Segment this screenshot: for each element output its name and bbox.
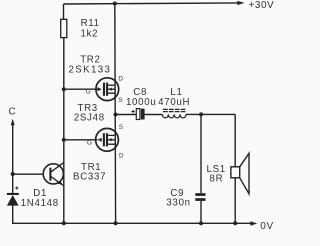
svg-text:C: C — [9, 107, 17, 118]
svg-text:8R: 8R — [210, 174, 224, 185]
svg-text:S: S — [118, 97, 122, 104]
svg-text:G: G — [87, 140, 92, 147]
svg-text:D: D — [118, 75, 123, 82]
svg-text:1N4148: 1N4148 — [21, 198, 59, 209]
svg-text:470uH: 470uH — [158, 97, 190, 108]
svg-text:0V: 0V — [260, 221, 274, 232]
svg-text:1000u: 1000u — [126, 97, 156, 108]
svg-text:1k2: 1k2 — [81, 29, 99, 40]
svg-text:R11: R11 — [81, 18, 100, 29]
svg-text:330n: 330n — [166, 197, 190, 208]
svg-text:+30V: +30V — [249, 0, 275, 11]
svg-text:D: D — [119, 153, 124, 160]
svg-text:S: S — [119, 124, 123, 131]
svg-text:2SJ48: 2SJ48 — [74, 113, 105, 124]
svg-text:BC337: BC337 — [73, 172, 106, 183]
svg-text:2SK133: 2SK133 — [68, 65, 111, 76]
svg-text:G: G — [86, 88, 91, 95]
